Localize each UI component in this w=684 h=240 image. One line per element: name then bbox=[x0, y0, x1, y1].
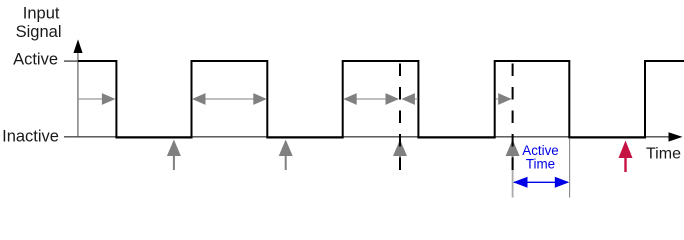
sample arrow 3 (gray up, on dashed line) bbox=[399, 154, 401, 170]
svg-text:Inactive: Inactive bbox=[2, 128, 59, 146]
sample arrow 2 (gray up) bbox=[285, 154, 287, 170]
extension line at pulse4 fall bbox=[569, 138, 571, 198]
extension line below dashed line pulse4 bbox=[512, 170, 514, 198]
arrow pulse2 width (double) bbox=[197, 98, 262, 100]
dashed line pulse3 bbox=[399, 64, 401, 173]
y-axis arrowhead bbox=[73, 39, 82, 53]
waveform bbox=[78, 61, 684, 138]
svg-text:Input: Input bbox=[23, 5, 60, 23]
time axis arrowhead bbox=[669, 132, 683, 141]
svg-text:Active: Active bbox=[13, 51, 58, 69]
event arrow (red up) bbox=[624, 156, 626, 172]
sample arrow 4 (gray up, on dashed line) bbox=[512, 154, 514, 170]
arrow pulse4 rise-to-dash (single right) bbox=[496, 98, 500, 100]
arrow pulse1 width (single right) bbox=[79, 98, 104, 100]
sample arrow 1 (gray up) bbox=[173, 154, 175, 170]
svg-text:Time: Time bbox=[526, 156, 555, 171]
dashed line pulse4 bbox=[512, 64, 514, 173]
time axis (inactive baseline) bbox=[64, 136, 670, 138]
active time dimension arrow (blue double) bbox=[514, 181, 568, 183]
svg-text:Signal: Signal bbox=[16, 23, 62, 41]
y-axis vertical line bbox=[77, 48, 79, 137]
svg-text:Time: Time bbox=[646, 146, 681, 163]
active level tick bbox=[64, 60, 78, 62]
arrow pulse3 rise-to-dash (double) bbox=[348, 98, 394, 100]
arrow pulse3 fall-to-dash (left head) bbox=[405, 98, 418, 100]
